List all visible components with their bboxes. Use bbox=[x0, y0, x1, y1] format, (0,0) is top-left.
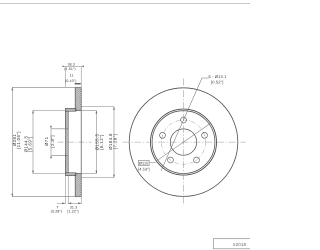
label Ø71 (2.8") bbox=[44, 135, 55, 148]
label Ø281 (11.06") bbox=[12, 131, 21, 149]
svg-text:52018: 52018 bbox=[233, 242, 247, 247]
label Ø155.5 (6.12") bbox=[95, 133, 104, 150]
dim 7 bottom left bbox=[51, 176, 69, 214]
hat step circle bbox=[152, 111, 215, 174]
hat wall bottom (section, hatched) bbox=[65, 173, 76, 176]
svg-text:11: 11 bbox=[70, 73, 74, 77]
section horizontal centerline bbox=[58, 141, 92, 143]
svg-text:(0.43"): (0.43") bbox=[65, 79, 76, 83]
svg-text:[1.22"]: [1.22"] bbox=[67, 210, 78, 214]
hat mounting face lower part (section, hatched) bbox=[65, 155, 68, 173]
center bore circle bbox=[170, 129, 196, 155]
svg-text:5 - Ø13.1: 5 - Ø13.1 bbox=[209, 74, 228, 79]
dim Ø155.5 right bracket bbox=[81, 111, 97, 174]
hat mounting face upper part (section, hatched) bbox=[65, 111, 68, 129]
label Ø144.5 (5.69") bbox=[24, 135, 33, 152]
leader line for bolt hole callout bbox=[161, 78, 209, 171]
friction ring bottom (section, hatched) bbox=[75, 174, 81, 197]
dim 38.3 top block bbox=[63, 63, 84, 88]
bolt hole top bbox=[181, 117, 187, 123]
friction ring top (section, hatched) bbox=[75, 87, 81, 110]
label 5 - Ø13.1 (0.52") bbox=[209, 74, 228, 85]
svg-text:[5.69"]: [5.69"] bbox=[28, 136, 33, 151]
label Ø184.8 (7.28") bbox=[108, 133, 118, 150]
dim 31.3 bottom bbox=[67, 197, 81, 214]
svg-text:[4.53"]: [4.53"] bbox=[138, 168, 150, 172]
hat outer circle bbox=[151, 109, 217, 175]
svg-text:[6.12"]: [6.12"] bbox=[99, 134, 104, 149]
diagonal centerline through center bbox=[157, 124, 210, 161]
boxed label Ø115 (4.53") bolt circle bbox=[138, 160, 157, 171]
disc outboard face line between rings bbox=[80, 111, 82, 174]
top frame line bbox=[0, 3, 250, 5]
dim Ø281 vertical line with arrows bbox=[11, 87, 81, 196]
hat wall top (section, hatched) bbox=[65, 108, 76, 111]
vertical centerline bbox=[183, 79, 185, 206]
svg-text:Ø71: Ø71 bbox=[44, 136, 49, 146]
dim Ø184.8 far right bracket bbox=[81, 107, 115, 178]
dim Ø71 bore with tick ends bbox=[50, 126, 68, 159]
svg-text:(0.28"): (0.28") bbox=[51, 210, 63, 214]
bolt hole lower left bbox=[168, 157, 174, 163]
svg-text:Ø115: Ø115 bbox=[139, 162, 148, 166]
svg-text:(1.51"): (1.51") bbox=[64, 67, 75, 71]
svg-text:[2.8"]: [2.8"] bbox=[50, 135, 55, 148]
outer diameter circle bbox=[129, 88, 238, 197]
svg-text:[0.52"]: [0.52"] bbox=[211, 80, 223, 85]
bolt hole upper left bbox=[160, 132, 166, 138]
dim Ø144.5 vertical line with arrows bbox=[32, 110, 65, 173]
center bore gap edges in mounting face bbox=[65, 129, 68, 156]
svg-text:[7.28"]: [7.28"] bbox=[112, 134, 117, 149]
horizontal centerline bbox=[123, 141, 246, 143]
bolt circle (dashed) bbox=[161, 120, 205, 164]
title block bbox=[213, 239, 253, 249]
dim 11 arrows bbox=[75, 83, 81, 84]
bolt hole upper right bbox=[202, 132, 208, 138]
bolt hole lower right bbox=[194, 157, 200, 163]
svg-text:38.3: 38.3 bbox=[68, 63, 75, 67]
svg-text:[11.06"]: [11.06"] bbox=[16, 131, 21, 149]
